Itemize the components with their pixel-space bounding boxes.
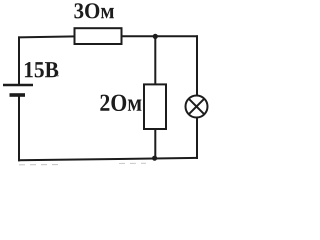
junction node: middle branch to bottom wire (152, 156, 157, 161)
wire: left vertical from top corner down to battery + plate (18, 36, 20, 85)
battery GB1: short thick (negative) plate (10, 93, 26, 97)
wire: middle branch vertical from top wire to resistor R2 (154, 36, 156, 86)
resistor R1 (3 Ом) (75, 28, 122, 44)
lamp HL1: circle (186, 96, 208, 118)
wire: middle branch vertical from resistor R2 to bottom wire (154, 128, 156, 159)
scan artifact: small dot after label 15В (57, 75, 59, 77)
label "15В" for battery (25, 62, 58, 77)
scan artifact: faint dashed line below bottom wire (left) (19, 164, 62, 166)
wire: left vertical from battery - plate down to bottom-left corner (18, 95, 20, 161)
lamp HL1: X cross stroke 1 (189, 99, 205, 115)
label "3Ом" for R1 (74, 3, 114, 18)
scan artifact: faint dashed line below bottom wire (middle) (119, 162, 146, 164)
junction node: middle branch to top wire (153, 34, 158, 39)
wire: right vertical from top-right corner down to lamp (196, 35, 198, 96)
resistor R2 (2 Ом) (144, 84, 166, 129)
wire: top segment from resistor R1 to top-right corner (120, 35, 198, 37)
wire: top segment from left corner to resistor R1 (18, 36, 76, 37)
battery GB1: long (positive) plate (3, 84, 33, 87)
lamp HL1: X cross stroke 2 (189, 99, 205, 115)
wire: right vertical from lamp down to bottom-right corner (196, 117, 198, 159)
label "2Ом" for R2 (100, 95, 141, 111)
wire: bottom horizontal from left corner to right corner (18, 158, 198, 160)
